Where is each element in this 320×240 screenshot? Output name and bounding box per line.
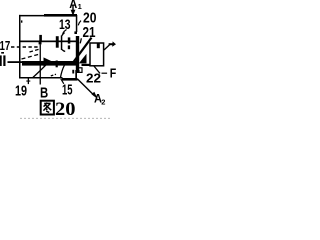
leader from 13: [63, 30, 67, 34]
curved surface of element 19: [33, 63, 48, 78]
small square at bottom junction: [78, 68, 82, 73]
leader from 19: [26, 78, 30, 84]
section line B: [40, 44, 41, 84]
leader from 20: [78, 21, 81, 26]
mirror diagonal 21: [74, 38, 92, 62]
svg-text:13: 13: [59, 16, 71, 32]
housing box bottom edge: [19, 77, 78, 81]
svg-text:19: 19: [15, 82, 27, 99]
svg-text:B: B: [40, 85, 48, 102]
tick mark inside box: [21, 20, 22, 22]
dash to F: [102, 73, 108, 74]
caption glyph tu (figure): [41, 101, 54, 115]
main beam thick band: [22, 61, 76, 66]
beam arrowhead: [44, 57, 53, 66]
small element bars right of lens: [68, 37, 71, 49]
svg-text:21: 21: [83, 25, 96, 41]
lens element (integral shape): [61, 33, 65, 52]
dark wedge under mirror: [79, 54, 87, 64]
vertical stub below junction: [75, 70, 77, 80]
svg-text:15: 15: [62, 83, 73, 99]
arrow up-right from small box: [104, 41, 116, 50]
svg-text:17: 17: [0, 38, 10, 53]
hook at bottom of thin vertical: [74, 31, 77, 34]
blob left of junction stub: [72, 70, 74, 74]
dashed ray 2: [30, 49, 40, 52]
aperture element on upper axis: [39, 35, 42, 45]
arrow A1 into box: [71, 5, 76, 16]
lens bar lower stub: [56, 61, 58, 68]
leader to 15: [61, 79, 64, 84]
diagonal at lower junction: [60, 65, 64, 78]
thick lens plate left of cluster: [56, 36, 59, 48]
faint scan line at bottom: [20, 117, 112, 119]
main beam line thin left part: [8, 61, 23, 63]
connector to small box bottom: [82, 64, 91, 66]
svg-text:2: 2: [101, 98, 105, 107]
small box element 2: [90, 43, 104, 66]
dashes left of junction: [51, 74, 56, 76]
housing box left edge: [19, 15, 21, 79]
tall thick vertical plate: [76, 36, 79, 71]
svg-text:F: F: [110, 67, 117, 81]
leader stub from 21: [80, 38, 81, 43]
arrow A2: [78, 79, 98, 99]
blob inside small box: [97, 43, 100, 48]
dashed ray 1: [22, 54, 41, 59]
housing box top edge: [19, 14, 77, 17]
dashed line from 17: [11, 46, 39, 48]
label 11 partial at left edge: [0, 52, 6, 66]
svg-text:20: 20: [55, 99, 76, 120]
svg-text:1: 1: [78, 2, 82, 11]
right thin vertical segment: [76, 15, 78, 32]
diagonal leader below small box: [94, 66, 101, 74]
upper axis line: [20, 41, 77, 43]
